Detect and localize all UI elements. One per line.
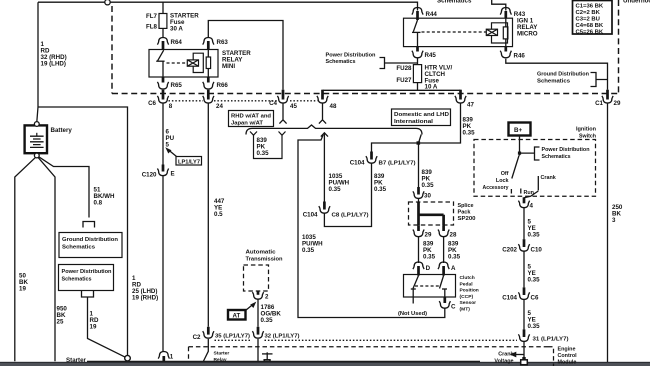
svg-text:Sensor: Sensor [460, 300, 477, 306]
svg-text:Pedal: Pedal [460, 281, 474, 287]
svg-text:8: 8 [169, 103, 173, 110]
svg-text:0.35: 0.35 [422, 182, 435, 189]
svg-text:5: 5 [166, 142, 170, 149]
bracket: ground distribution tap [591, 73, 608, 87]
wire: 1035 PU/WH jog to clutch sensor [298, 135, 445, 318]
wire: C6-24 down 447 YE 0.5 to C2-35 [207, 103, 209, 326]
box: starter housing top edge [87, 360, 480, 362]
wire: 50 BK 19 ground [15, 157, 36, 361]
connector ignition pin 4 [518, 197, 533, 209]
svg-text:Ground Distribution: Ground Distribution [62, 237, 118, 243]
svg-text:Lock: Lock [496, 178, 509, 184]
label: Starter [66, 357, 87, 364]
wire: battery positive feed top line [38, 2, 418, 10]
label: 839 PK 0.35 (B7 wire) [374, 173, 387, 193]
svg-text:Control: Control [558, 353, 578, 359]
svg-text:AT: AT [233, 313, 241, 320]
svg-text:Engine: Engine [558, 346, 576, 352]
label: 447 YE 0.5 [214, 198, 225, 218]
svg-text:Schematics: Schematics [537, 79, 570, 85]
label: 1 RD 19 [90, 311, 99, 331]
svg-text:C104: C104 [502, 295, 517, 302]
svg-text:1: 1 [170, 354, 174, 361]
label: Power Distribution Schematics (switch) [542, 147, 590, 160]
terminal: cup connector under power distribution box [82, 291, 94, 298]
svg-text:Clutch: Clutch [460, 275, 475, 281]
svg-text:C104: C104 [303, 212, 318, 219]
wire: CCP ganged link dashed [415, 285, 441, 287]
connector C1 pin 29 [595, 90, 621, 108]
node: battery positive terminal [34, 122, 39, 127]
wire: 1786 OG/BK to C2-32 [257, 300, 259, 327]
svg-text:29: 29 [425, 232, 432, 239]
svg-text:C4=68 BK: C4=68 BK [576, 23, 604, 29]
wire: C1-29 down right side 250 BK 3 [607, 103, 609, 362]
svg-text:C: C [451, 304, 456, 311]
connector R45 [412, 47, 437, 59]
svg-text:FL7: FL7 [146, 13, 158, 20]
label: 1786 OG/BK 0.35 [261, 304, 282, 324]
svg-text:Power Distribution: Power Distribution [542, 147, 590, 153]
svg-text:Battery: Battery [51, 127, 73, 134]
svg-text:Schematics: Schematics [62, 277, 92, 283]
switch: CCP right contact [440, 276, 448, 298]
connector R63 [203, 38, 229, 50]
wire: R45 to fuse FU28 [417, 58, 419, 65]
label: wire 1 RD 32(RHD) 19(LHD) [41, 41, 67, 68]
wire: R43 through resistor [505, 18, 507, 46]
svg-text:SP200: SP200 [458, 216, 476, 222]
svg-text:R46: R46 [514, 53, 526, 60]
label: Ignition Switch [576, 127, 596, 140]
wire: fuse to bus [417, 83, 419, 91]
svg-text:Position: Position [460, 288, 479, 294]
label: Off Lock Accessory positions [483, 171, 512, 194]
label: Ground Distribution Schematics (right) [537, 72, 589, 85]
svg-text:R44: R44 [426, 11, 438, 18]
label: 839 PK 0.35 (pin D wire) [423, 241, 436, 261]
connector R65 [157, 77, 182, 89]
wire: battery feed drop and branch to starter [37, 2, 38, 122]
svg-text:0.8: 0.8 [94, 200, 103, 207]
svg-text:Power Distribution: Power Distribution [326, 53, 376, 59]
label: Starter Relay Coil [214, 351, 230, 366]
switch: ign relay contact arm [412, 20, 421, 47]
node: starter solenoid feed junction circle [125, 355, 131, 361]
svg-text:R64: R64 [171, 39, 183, 46]
svg-text:C2=2 BK: C2=2 BK [576, 10, 601, 16]
wire: R63 through resistor [207, 50, 209, 78]
box: Ground Distribution Schematics [59, 233, 122, 258]
connector clutch sensor pin D [413, 262, 431, 276]
svg-text:Transmission: Transmission [246, 257, 283, 263]
svg-text:24: 24 [216, 103, 223, 110]
fuse FL7/FL8 STARTER Fuse 30A [159, 14, 167, 29]
bracket: power distribution tap inside switch [520, 147, 540, 160]
svg-text:10 A: 10 A [425, 84, 438, 91]
svg-text:Schematics: Schematics [326, 59, 356, 65]
svg-text:C120: C120 [142, 172, 157, 179]
connector SP200 pin 28 [438, 225, 457, 238]
svg-text:FL8: FL8 [146, 24, 158, 31]
svg-text:19 (RHD): 19 (RHD) [132, 295, 158, 302]
label: FL7 [146, 13, 158, 20]
wire: 5 YE to ECM pin 31 [523, 299, 525, 329]
svg-text:MINI: MINI [222, 63, 235, 70]
svg-text:Splice: Splice [458, 203, 474, 209]
svg-text:R66: R66 [217, 82, 229, 89]
svg-text:0.35: 0.35 [302, 247, 315, 254]
svg-text:C6: C6 [148, 100, 156, 107]
fuse FU28/FU27 HTR VLV CLTCH 10A [413, 65, 421, 83]
switch: CCP left contact (not used) [411, 276, 419, 304]
svg-text:Off: Off [501, 171, 509, 177]
wire: dashed boundary vertical left [111, 6, 113, 94]
svg-text:(Not Used): (Not Used) [398, 311, 427, 317]
svg-text:A: A [451, 265, 456, 272]
wire: dotted mating line C6/C4 row [169, 100, 318, 102]
svg-text:FU28: FU28 [396, 65, 412, 72]
connector R66 [203, 77, 229, 89]
svg-text:19: 19 [19, 286, 26, 293]
svg-text:19: 19 [90, 324, 97, 331]
connector R44 [412, 8, 438, 21]
svg-text:0.35: 0.35 [374, 186, 387, 193]
box: Power Distribution Schematics (left) [59, 265, 114, 291]
wire: B7/brace header to C4-47 and SP200 [372, 103, 461, 187]
svg-text:(MT): (MT) [460, 307, 471, 313]
connector C104 pin C6 [502, 287, 539, 301]
svg-text:45: 45 [290, 103, 297, 110]
wire: dashed bulkhead horizontal [112, 93, 619, 95]
component: automatic transmission dashed box [244, 265, 269, 291]
connector C4 pin 45 [269, 90, 297, 110]
wire: feed down to starter fuse [162, 2, 164, 13]
label: 6 PU 5 (upper) [166, 129, 175, 149]
box: Domestic and LHD International [392, 109, 451, 126]
wire: dashed starter box left edge [188, 347, 190, 366]
svg-text:C202: C202 [502, 247, 517, 254]
svg-text:2: 2 [265, 294, 269, 301]
connector C120 pin E [142, 165, 175, 179]
label: Splice Pack SP200 [458, 203, 476, 222]
resistor: ign relay suppression [503, 27, 508, 39]
wire: pin 31 into ECM [522, 341, 525, 360]
coil bracket box starter relay [193, 53, 203, 72]
svg-text:Ignition: Ignition [576, 127, 596, 133]
connector R64 [157, 38, 182, 50]
label: 5 YE 0.35 (1) [528, 219, 541, 239]
label: FL8 [146, 24, 158, 31]
label: 839 PK 0.35 (C4-47 wire) [463, 117, 476, 137]
svg-text:Japan w/AT: Japan w/AT [231, 120, 264, 126]
svg-text:LP1/LY7: LP1/LY7 [178, 159, 200, 165]
connector R46 [500, 47, 525, 60]
coil: starter relay crossed box [187, 60, 198, 66]
node: junction circle on top feed at dashed boundary [105, 0, 110, 5]
label: 839 PK 0.35 boxed group label [250, 132, 286, 159]
connector C202 pin C10 [502, 239, 542, 253]
svg-text:19 (LHD): 19 (LHD) [41, 61, 66, 68]
svg-text:31 (LP1/LY7): 31 (LP1/LY7) [533, 337, 569, 343]
svg-text:R65: R65 [171, 82, 183, 89]
label: HTR VLV/ CLTCH Fuse 10 A [425, 65, 453, 91]
wire: branch 1 RD to starter solenoid junction [38, 107, 128, 356]
terminal: starter solenoid plunger post [262, 352, 273, 364]
switch: starter relay contact arm [156, 50, 164, 77]
wire: R46 run to C1 [506, 59, 608, 90]
wire: C4-45 drop to brace [279, 103, 286, 123]
connector C2 pin 32 [252, 327, 299, 340]
svg-text:FU27: FU27 [396, 77, 412, 84]
svg-text:D: D [426, 265, 431, 272]
svg-text:RHD w/AT and: RHD w/AT and [231, 113, 271, 119]
terminal B+ feed box [509, 123, 531, 136]
svg-text:28: 28 [450, 232, 457, 239]
wire: fuse to R64 [162, 28, 164, 38]
svg-text:Starter: Starter [214, 351, 230, 357]
connector clutch sensor pin C [439, 297, 456, 311]
svg-text:C4: C4 [269, 100, 277, 107]
svg-text:32 (LP1/LY7): 32 (LP1/LY7) [265, 334, 300, 340]
wire: SP200-28 to clutch pedal pin A [443, 237, 445, 263]
svg-text:0.35: 0.35 [463, 130, 476, 137]
connector C6 pin 8 [148, 90, 173, 110]
relay K-ign box IGN 1 RELAY MICRO [404, 18, 513, 46]
svg-text:C3=2 BU: C3=2 BU [576, 16, 600, 22]
label: 839 PK 0.35 (SP200 feed) [422, 169, 435, 189]
svg-text:C8 (LP1/LY7): C8 (LP1/LY7) [332, 213, 369, 219]
label: 839 PK 0.35 (pin A wire) [448, 241, 461, 261]
label: 250 BK 3 [612, 204, 623, 224]
coil: ign relay crossed box [486, 29, 497, 35]
connector AT pin 2 [252, 291, 269, 301]
svg-text:35 (LP1/LY7): 35 (LP1/LY7) [215, 334, 250, 340]
label: 5 YE 0.35 (3) [528, 310, 541, 330]
label: FU27 [396, 77, 412, 84]
svg-text:C104: C104 [350, 160, 365, 167]
svg-text:Underhood: Underhood [623, 0, 650, 5]
svg-text:0.35: 0.35 [528, 277, 541, 284]
label: IGN 1 RELAY MICRO [517, 18, 538, 38]
svg-text:Accessory: Accessory [483, 185, 509, 191]
label: Automatic Transmission [246, 250, 283, 263]
svg-text:48: 48 [330, 103, 337, 110]
connector C104 pin B7 [350, 152, 416, 167]
label: Engine Control Module [558, 346, 578, 365]
label: LP1/LY7 flag with arrow [165, 147, 201, 165]
bracket: power distribution tap [380, 58, 418, 69]
label: Power Distribution Schematics (top) [326, 53, 376, 66]
terminal: ECM crank voltage input square [521, 360, 528, 365]
connector C104 pin C8 [303, 202, 369, 219]
svg-text:C2: C2 [193, 334, 201, 341]
wire: dotted mating line C2 row [215, 339, 518, 341]
wire: 5 YE to C202 [523, 208, 525, 239]
svg-text:C5=26 BK: C5=26 BK [576, 29, 604, 35]
svg-text:Schematics: Schematics [437, 0, 472, 5]
wire: brace to C104-C8 and 1035 branch fork [321, 133, 328, 202]
legend box C1-C5 connector key [573, 1, 613, 36]
svg-text:30: 30 [424, 193, 431, 200]
relay K-starter box STARTER RELAY MINI [149, 50, 218, 78]
wire: starter relay coil control dashed [167, 62, 188, 64]
label: Battery [51, 127, 73, 134]
connector C6 pin 24 [203, 90, 224, 110]
wire: C2-32 into starter [257, 339, 259, 363]
svg-text:Pack: Pack [458, 210, 471, 216]
svg-text:Schematics: Schematics [62, 245, 95, 251]
svg-text:Crank: Crank [541, 175, 556, 181]
switch: ignition rotor arm [512, 156, 519, 179]
svg-text:0.35: 0.35 [261, 317, 274, 324]
label: 51 BK/WH 0.8 [94, 187, 115, 207]
wire: R63 riser to C4-45 [208, 21, 283, 90]
battery BAT1 [25, 125, 47, 153]
svg-text:0.5: 0.5 [214, 211, 223, 218]
label: Crank position contact [538, 175, 555, 191]
connector R43 [500, 8, 526, 19]
label: 950 BK 25 [57, 306, 68, 326]
bar: bottom crop band [0, 362, 650, 366]
connector C4 pin 47 [455, 90, 475, 109]
label: cut-off schematics text top center [437, 0, 472, 5]
svg-text:Switch: Switch [579, 134, 596, 140]
label: STARTER Fuse 30 A [170, 13, 199, 33]
svg-text:R63: R63 [217, 39, 229, 46]
wire: C8 to B7 link [324, 164, 371, 227]
svg-text:C6: C6 [531, 295, 539, 302]
connector SP200 pin 29 [413, 225, 432, 238]
connector C2 pin 35 [193, 327, 251, 341]
wire: ign relay coil control dashed [422, 31, 487, 33]
svg-text:0.35: 0.35 [329, 186, 342, 193]
wire: bus to C4-48 and C4-47 [323, 89, 461, 91]
svg-text:Power Distribution: Power Distribution [62, 269, 112, 275]
svg-text:29: 29 [614, 100, 621, 107]
svg-text:C10: C10 [531, 247, 543, 254]
svg-text:Schematics: Schematics [542, 154, 571, 160]
switch: starter relay coil feed arm [202, 339, 208, 364]
svg-text:B+: B+ [514, 127, 522, 134]
wire: C6-8 to C120 6 PU 5 [162, 103, 164, 164]
connector ECM pin 31 [518, 329, 568, 342]
wire: R43 feed stub to generator schematics (cut off at top) [492, 0, 506, 11]
sensor: clutch pedal position CCP box [404, 275, 456, 298]
svg-text:0.35: 0.35 [528, 323, 541, 330]
svg-text:Voltage: Voltage [494, 359, 513, 365]
splice pack SP200 dashed box [409, 202, 454, 225]
svg-text:C1=36 BK: C1=36 BK [576, 3, 604, 9]
svg-text:25: 25 [57, 319, 64, 326]
svg-text:Automatic: Automatic [246, 250, 276, 256]
label: STARTER RELAY MINI [222, 50, 251, 70]
label: FU28 [396, 65, 412, 72]
svg-text:30 A: 30 A [170, 26, 183, 33]
resistor: starter relay suppression [206, 57, 210, 69]
svg-text:0.35: 0.35 [448, 254, 461, 261]
svg-text:Domestic and LHD: Domestic and LHD [394, 112, 449, 118]
svg-text:0.35: 0.35 [257, 150, 270, 157]
label: Run position [521, 189, 534, 196]
wire: 950 BK 25 ground [38, 157, 55, 361]
label: 1035 PU/WH 0.35 (lower) [302, 234, 323, 254]
wire: C120 to starter solenoid terminal 1 [162, 176, 164, 352]
terminal: pi connector on ground distribution box [83, 222, 95, 228]
svg-text:0.35: 0.35 [423, 254, 436, 261]
connector starter terminal 1 [158, 352, 174, 362]
svg-text:(CCP): (CCP) [460, 294, 474, 300]
svg-text:Module: Module [558, 359, 577, 365]
wire: 1 RD 19 to starter junction [88, 297, 126, 357]
wire: 5 YE to C104 [523, 251, 525, 287]
box: engine control module dashed corner [548, 347, 554, 366]
wire: dashed component boundary bottom [189, 346, 549, 348]
brace: wire group bus [246, 125, 422, 135]
svg-text:4: 4 [530, 203, 534, 210]
svg-text:R45: R45 [425, 52, 437, 59]
svg-text:47: 47 [467, 102, 474, 109]
svg-text:E: E [171, 171, 175, 178]
wire: crank contact to pin 4 [524, 191, 538, 198]
label: 1 RD 25 (LHD) 19 (RHD) [132, 275, 158, 302]
svg-text:B7 (LP1/LY7): B7 (LP1/LY7) [379, 161, 416, 167]
wire: 51 BK/WH 0.8 to ground distribution [39, 157, 89, 218]
wire: SP200-29 to clutch pedal pin D [418, 237, 420, 263]
wire: dashed boundary vertical right [618, 0, 620, 94]
svg-text:3: 3 [612, 217, 616, 224]
wire: SP200 internal tee [419, 202, 444, 225]
connector clutch sensor pin A [438, 262, 456, 276]
coil bracket box ign relay [492, 23, 508, 43]
switch: ignition switch dashed box [474, 140, 596, 197]
wire: C4-48 drop to brace [319, 103, 326, 123]
svg-text:Ground Distribution: Ground Distribution [537, 72, 589, 78]
label: 1035 PU/WH 0.35 (upper) [329, 173, 350, 193]
label: 5 YE 0.35 (2) [528, 264, 541, 284]
label: 50 BK 19 [19, 273, 28, 293]
svg-text:0.35: 0.35 [528, 232, 541, 239]
svg-text:C1: C1 [595, 100, 603, 107]
wire: B+ into switch [518, 136, 521, 156]
label: (Not Used) [398, 311, 427, 317]
label: Clutch Pedal Position (CCP) Sensor (MT) [460, 275, 479, 313]
label: cut-off text top right corner [623, 0, 650, 5]
label: Crank Voltage with arrow [494, 352, 523, 365]
box: RHD w/AT and Japan w/AT [229, 111, 274, 127]
node: battery negative terminal [34, 153, 39, 158]
svg-text:MICRO: MICRO [517, 31, 538, 38]
svg-text:International: International [394, 119, 434, 125]
connector SP200 pin 30 [413, 187, 432, 202]
connector C4 pin 48 [317, 90, 337, 110]
label: AT flag with arrow [228, 302, 256, 320]
